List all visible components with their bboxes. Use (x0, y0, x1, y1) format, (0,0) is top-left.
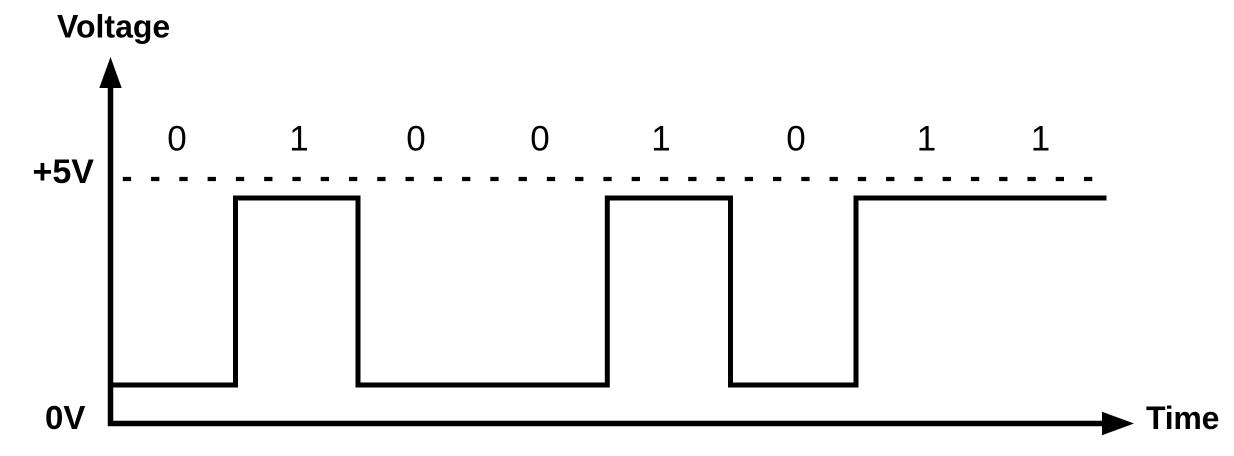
+5V dashed reference line (123, 177, 1093, 181)
svg-text:Time: Time (1146, 400, 1219, 436)
digital signal waveform 01001011 (111, 198, 1107, 385)
svg-text:+5V: +5V (33, 153, 95, 191)
svg-text:0: 0 (167, 119, 186, 158)
time axis arrowhead (1102, 412, 1134, 436)
time axis (horizontal) (108, 421, 1104, 427)
voltage axis (vertical) (108, 84, 114, 426)
svg-text:1: 1 (289, 119, 308, 158)
svg-text:1: 1 (917, 119, 936, 158)
svg-text:Voltage: Voltage (57, 8, 170, 44)
svg-text:1: 1 (1031, 119, 1050, 158)
svg-text:0V: 0V (45, 399, 85, 436)
voltage axis arrowhead (99, 57, 121, 88)
svg-text:1: 1 (651, 119, 670, 158)
svg-text:0: 0 (406, 119, 425, 158)
svg-text:0: 0 (786, 119, 805, 158)
svg-text:0: 0 (530, 119, 549, 158)
